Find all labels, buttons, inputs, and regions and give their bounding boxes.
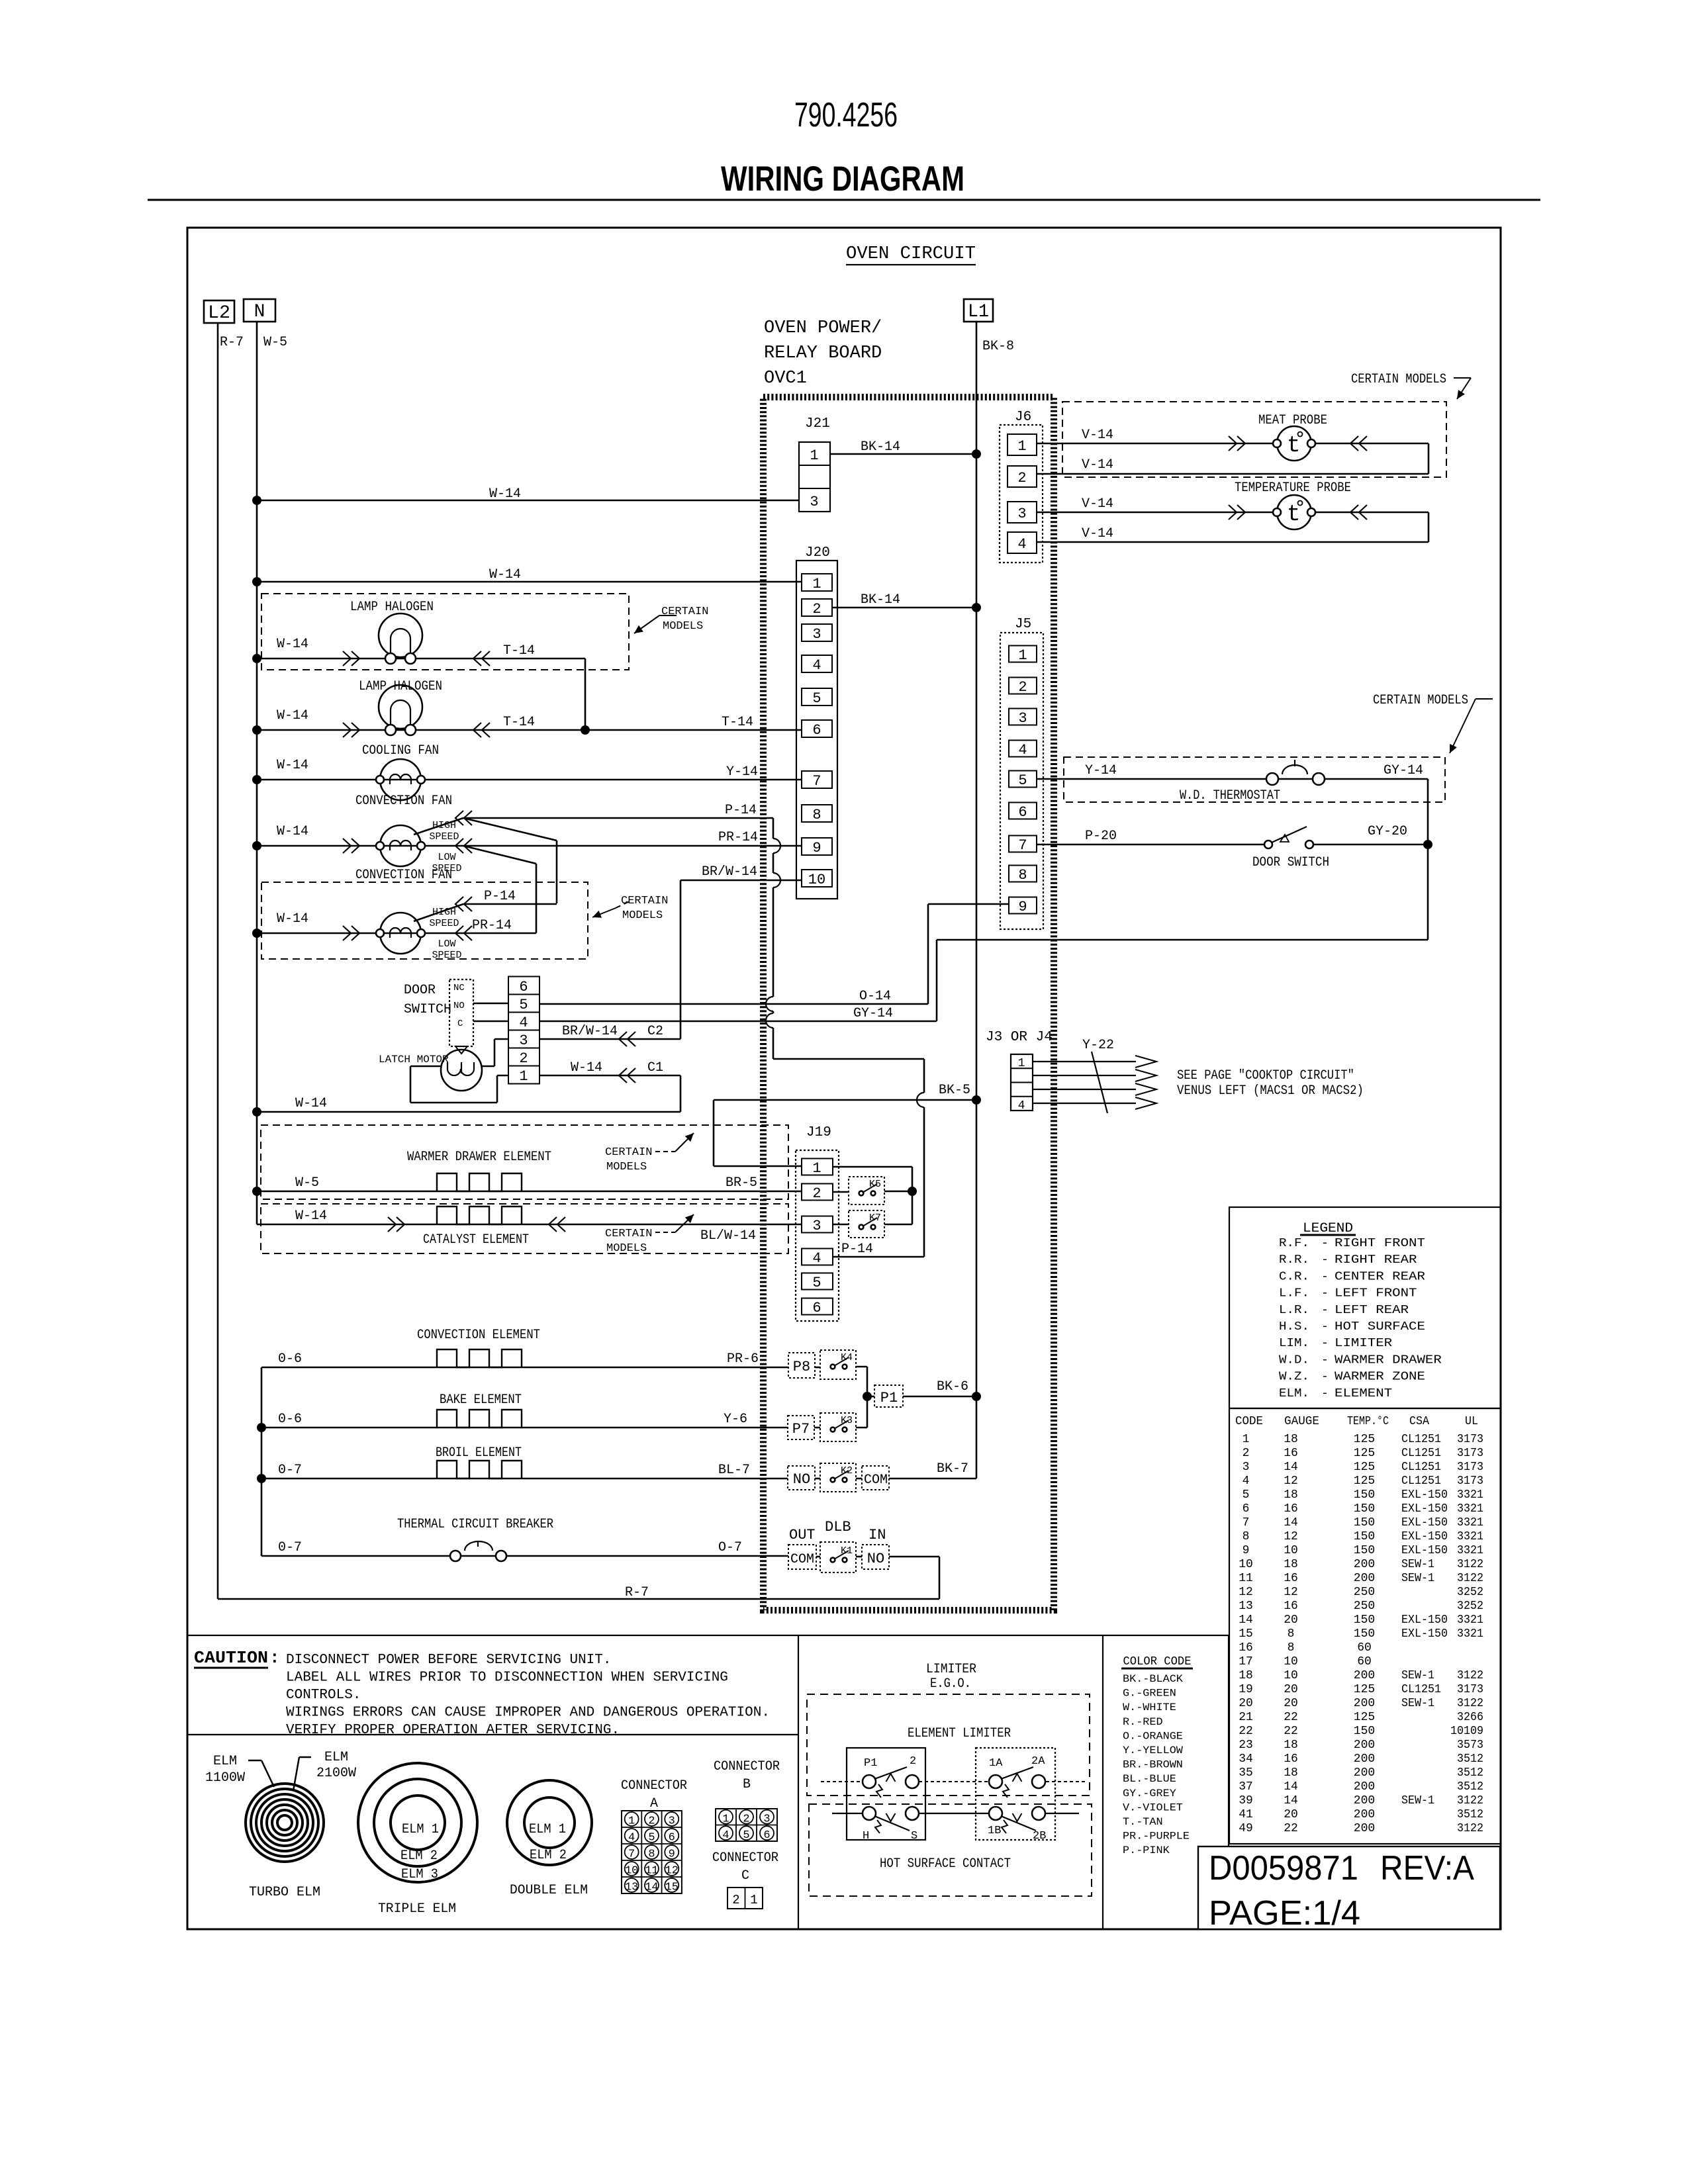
divider limiter/colorcode [1102, 1635, 1103, 1929]
meat probe sensor symbol [1277, 426, 1311, 461]
svg-text:P-14: P-14 [841, 1242, 873, 1257]
svg-text:10: 10 [625, 1865, 638, 1878]
connector chevrons lamp1 left [343, 651, 351, 666]
terminal COM broil [862, 1466, 889, 1490]
wire L2 R-7 vertical bus [217, 323, 219, 1599]
terminal P8 [788, 1353, 815, 1378]
svg-text:HOT SURFACE: HOT SURFACE [1335, 1320, 1425, 1334]
terminal L1 [964, 299, 993, 322]
svg-text:3173: 3173 [1457, 1433, 1483, 1446]
svg-text:150: 150 [1354, 1502, 1375, 1516]
svg-text:W-5: W-5 [263, 335, 287, 350]
svg-text:60: 60 [1357, 1641, 1372, 1655]
svg-text:W-5: W-5 [295, 1175, 319, 1191]
svg-text:14: 14 [1284, 1516, 1298, 1529]
hop P-14 vertical over BK-5 [917, 1093, 924, 1107]
svg-text:V.-VIOLET: V.-VIOLET [1123, 1801, 1183, 1813]
wire BR/W-14 C2 from cell 3 [539, 1038, 680, 1040]
svg-text:W.-WHITE: W.-WHITE [1123, 1702, 1176, 1713]
connector chevrons catalyst right [549, 1217, 557, 1232]
svg-text:H.S.: H.S. [1279, 1320, 1309, 1334]
svg-text:200: 200 [1354, 1808, 1375, 1821]
svg-text:-: - [1321, 1387, 1329, 1400]
wire R-7 riser to DLB NO [939, 1557, 941, 1599]
svg-text:0-6: 0-6 [278, 1412, 302, 1427]
svg-text:200: 200 [1354, 1558, 1375, 1571]
wire O-6 bake element row to P7 [261, 1427, 788, 1429]
svg-text:CERTAIN MODELS: CERTAIN MODELS [1351, 372, 1446, 387]
svg-text::: : [269, 1648, 280, 1668]
svg-text:BK-14: BK-14 [861, 592, 900, 608]
svg-text:P7: P7 [792, 1421, 810, 1437]
bottom band top edge [187, 1635, 1229, 1636]
svg-text:HOT SURFACE CONTACT: HOT SURFACE CONTACT [880, 1856, 1011, 1872]
svg-text:16: 16 [1284, 1502, 1298, 1516]
svg-text:C: C [741, 1868, 749, 1884]
junction BK-14 J20-2 on L1 bus [972, 603, 981, 612]
svg-text:8: 8 [1288, 1627, 1295, 1641]
wire J19-2 to K5 [833, 1191, 849, 1193]
svg-text:23: 23 [1239, 1739, 1253, 1752]
svg-text:N: N [254, 302, 265, 322]
svg-text:C: C [457, 1019, 463, 1029]
svg-text:WIRING DIAGRAM: WIRING DIAGRAM [721, 159, 964, 199]
svg-text:BR/W-14: BR/W-14 [562, 1024, 618, 1039]
wire K3 to P1 riser [856, 1427, 867, 1429]
svg-text:1: 1 [519, 1068, 528, 1085]
svg-text:CERTAIN: CERTAIN [661, 606, 708, 618]
svg-text:-: - [1321, 1270, 1329, 1283]
svg-text:150: 150 [1354, 1627, 1375, 1641]
svg-text:4: 4 [812, 657, 821, 674]
svg-text:8: 8 [1288, 1641, 1295, 1655]
svg-text:LEFT FRONT: LEFT FRONT [1335, 1287, 1417, 1300]
caution divider [187, 1734, 798, 1735]
svg-text:BK-14: BK-14 [861, 439, 900, 455]
svg-text:125: 125 [1354, 1433, 1375, 1446]
svg-text:K5: K5 [869, 1179, 881, 1190]
svg-text:GY-14: GY-14 [1383, 763, 1423, 778]
svg-text:9: 9 [1243, 1544, 1250, 1557]
svg-text:10: 10 [1284, 1655, 1298, 1668]
svg-text:3: 3 [1243, 1461, 1250, 1474]
svg-text:K4: K4 [841, 1352, 853, 1363]
svg-text:V-14: V-14 [1082, 457, 1113, 473]
svg-text:J20: J20 [805, 545, 830, 561]
svg-text:1: 1 [628, 1815, 635, 1828]
svg-text:-: - [1321, 1337, 1329, 1350]
svg-text:R.-RED: R.-RED [1123, 1716, 1163, 1728]
svg-text:41: 41 [1239, 1808, 1253, 1821]
svg-text:P.-PINK: P.-PINK [1123, 1844, 1170, 1856]
hop P-14 vertical over BR/W-14 [773, 873, 780, 887]
svg-text:COM: COM [864, 1473, 888, 1488]
svg-text:3173: 3173 [1457, 1447, 1483, 1460]
colorcode right edge [1228, 1635, 1229, 1929]
svg-text:LATCH MOTOR: LATCH MOTOR [379, 1054, 449, 1066]
wire R-7 bottom run [218, 1598, 939, 1600]
wire W-14 C1 riser to white bus [680, 1075, 682, 1112]
svg-text:14: 14 [645, 1882, 658, 1894]
relay K7 [849, 1210, 884, 1238]
lamp 1 symbol [379, 614, 422, 657]
svg-text:K7: K7 [869, 1212, 881, 1224]
svg-text:PR-14: PR-14 [718, 830, 758, 845]
svg-text:125: 125 [1354, 1711, 1375, 1724]
svg-text:SWITCH: SWITCH [404, 1002, 451, 1017]
svg-text:2: 2 [648, 1815, 655, 1828]
svg-text:3: 3 [519, 1032, 528, 1049]
wire conv fan2 high speed diagonal [414, 904, 463, 921]
svg-text:5: 5 [1018, 772, 1027, 789]
svg-text:150: 150 [1354, 1544, 1375, 1557]
svg-text:3321: 3321 [1457, 1544, 1483, 1557]
svg-text:11: 11 [645, 1865, 658, 1878]
svg-text:10109: 10109 [1450, 1725, 1483, 1738]
svg-text:18: 18 [1284, 1766, 1298, 1780]
svg-text:4: 4 [812, 1250, 821, 1267]
thermal breaker symbol [450, 1551, 461, 1561]
double elm rings [507, 1780, 592, 1865]
svg-text:6: 6 [669, 1832, 675, 1844]
svg-text:20: 20 [1284, 1697, 1298, 1710]
connector chevrons conv fan1 low speed [455, 839, 463, 853]
wire GY-14 door cell 4 run [539, 1021, 937, 1023]
svg-text:EXL-150: EXL-150 [1401, 1502, 1448, 1516]
title block [1198, 1846, 1500, 1929]
svg-text:2B: 2B [1033, 1830, 1046, 1843]
svg-text:16: 16 [1284, 1447, 1298, 1460]
svg-text:K3: K3 [841, 1415, 853, 1426]
svg-text:10: 10 [1284, 1544, 1298, 1557]
svg-text:LAMP HALOGEN: LAMP HALOGEN [359, 679, 442, 694]
terminal L2 [204, 300, 234, 323]
wire O orange bus vertical [261, 1367, 263, 1556]
relay K1 [820, 1542, 856, 1572]
wire V-14 temp probe return to J6-4 [1428, 512, 1430, 542]
connector A grid [622, 1811, 682, 1893]
svg-text:J5: J5 [1015, 617, 1031, 632]
wire NO to K2 [815, 1478, 820, 1480]
svg-text:20: 20 [1284, 1808, 1298, 1821]
connector chevrons temp probe left [1229, 505, 1237, 520]
svg-text:J6: J6 [1015, 410, 1031, 425]
svg-text:2: 2 [1243, 1447, 1250, 1460]
svg-text:CSA: CSA [1409, 1415, 1429, 1428]
svg-text:200: 200 [1354, 1572, 1375, 1585]
svg-text:3321: 3321 [1457, 1627, 1483, 1641]
terminal N [244, 299, 275, 322]
svg-text:37: 37 [1239, 1780, 1253, 1794]
svg-text:10: 10 [1284, 1669, 1298, 1682]
svg-text:22: 22 [1239, 1725, 1253, 1738]
svg-text:3266: 3266 [1457, 1711, 1483, 1724]
svg-text:EXL-150: EXL-150 [1401, 1614, 1448, 1627]
wire J19-1 to relay common [833, 1166, 912, 1168]
wire Y-14 J5-5 to wd thermostat [1037, 778, 1428, 780]
connector chevrons lamp2 right [473, 723, 481, 737]
svg-text:2: 2 [1018, 679, 1027, 696]
svg-text:GAUGE: GAUGE [1284, 1415, 1319, 1428]
svg-text:3321: 3321 [1457, 1488, 1483, 1502]
svg-text:VERIFY PROPER OPERATION AFTER: VERIFY PROPER OPERATION AFTER SERVICING. [286, 1723, 620, 1738]
svg-text:-: - [1321, 1253, 1329, 1267]
svg-text:3573: 3573 [1457, 1739, 1483, 1752]
svg-text:2100W: 2100W [316, 1766, 356, 1781]
svg-text:Y-22: Y-22 [1082, 1038, 1114, 1053]
svg-text:C1: C1 [647, 1060, 663, 1075]
svg-text:PR-14: PR-14 [472, 918, 512, 933]
svg-text:BK-5: BK-5 [939, 1083, 970, 1098]
svg-text:R-7: R-7 [220, 335, 244, 350]
svg-text:BL.-BLUE: BL.-BLUE [1123, 1773, 1176, 1785]
svg-text:R.R.: R.R. [1279, 1253, 1309, 1267]
svg-text:WIRINGS ERRORS CAN CAUSE IMPRO: WIRINGS ERRORS CAN CAUSE IMPROPER AND DA… [286, 1706, 770, 1721]
wire BK-14 J21-1 to L1 bus [830, 453, 976, 455]
svg-text:NO: NO [867, 1551, 884, 1567]
svg-text:20: 20 [1284, 1614, 1298, 1627]
svg-text:1: 1 [1018, 1057, 1025, 1070]
svg-text:2: 2 [743, 1813, 749, 1825]
wire conv fan1 high speed diagonal [414, 818, 463, 835]
svg-text:200: 200 [1354, 1697, 1375, 1710]
svg-text:BAKE ELEMENT: BAKE ELEMENT [440, 1392, 522, 1408]
svg-text:CERTAIN: CERTAIN [605, 1146, 652, 1159]
svg-text:9: 9 [1018, 899, 1027, 915]
svg-text:GY-14: GY-14 [853, 1006, 893, 1021]
svg-text:W-14: W-14 [277, 637, 308, 652]
wd thermostat symbol [1266, 773, 1278, 785]
svg-text:WARMER DRAWER: WARMER DRAWER [1335, 1353, 1442, 1367]
wire P8 to K4 [815, 1367, 820, 1369]
svg-text:3252: 3252 [1457, 1600, 1483, 1613]
svg-text:3: 3 [810, 494, 818, 510]
svg-text:200: 200 [1354, 1669, 1375, 1682]
svg-text:9: 9 [669, 1848, 675, 1861]
svg-text:CL1251: CL1251 [1401, 1461, 1441, 1474]
svg-text:SEW-1: SEW-1 [1401, 1558, 1434, 1571]
svg-text:BK.-BLACK: BK.-BLACK [1123, 1673, 1183, 1685]
svg-text:15: 15 [1239, 1627, 1253, 1641]
svg-text:200: 200 [1354, 1752, 1375, 1766]
bake element bumps [437, 1410, 522, 1428]
svg-text:3: 3 [1018, 710, 1027, 727]
svg-text:3122: 3122 [1457, 1794, 1483, 1807]
svg-text:CL1251: CL1251 [1401, 1475, 1441, 1488]
svg-text:P-14: P-14 [484, 889, 516, 904]
svg-text:J19: J19 [806, 1125, 831, 1140]
svg-text:3321: 3321 [1457, 1502, 1483, 1516]
svg-text:-: - [1321, 1320, 1329, 1334]
svg-text:49: 49 [1239, 1822, 1253, 1835]
svg-text:18: 18 [1239, 1669, 1253, 1682]
wire O-7 thermal breaker row to DLB COM [261, 1555, 788, 1557]
wire V-14 meat probe return to J6-2 [1428, 443, 1430, 474]
svg-text:CERTAIN: CERTAIN [605, 1228, 652, 1240]
svg-text:DISCONNECT POWER BEFORE SERVIC: DISCONNECT POWER BEFORE SERVICING UNIT. [286, 1653, 611, 1668]
svg-text:3122: 3122 [1457, 1558, 1483, 1571]
svg-text:Y.-YELLOW: Y.-YELLOW [1123, 1745, 1183, 1756]
svg-text:S: S [911, 1830, 917, 1843]
svg-text:C2: C2 [647, 1024, 663, 1039]
svg-text:6: 6 [812, 1300, 821, 1316]
svg-text:18: 18 [1284, 1739, 1298, 1752]
leader certain models fan2 [592, 908, 616, 917]
svg-text:250: 250 [1354, 1586, 1375, 1599]
svg-text:6: 6 [763, 1829, 770, 1842]
terminal NO broil [788, 1466, 815, 1490]
svg-text:W-14: W-14 [277, 911, 308, 927]
door switch connector cells 6-1 [508, 977, 539, 995]
svg-text:150: 150 [1354, 1530, 1375, 1543]
junction W-14 bottom bus on N bus [252, 1107, 261, 1116]
svg-text:PR.-PURPLE: PR.-PURPLE [1123, 1831, 1190, 1843]
svg-text:LOW: LOW [438, 852, 455, 863]
hop P-14 vertical over O-14 [766, 997, 773, 1011]
relay K2 [820, 1463, 856, 1492]
svg-text:16: 16 [1284, 1572, 1298, 1585]
svg-text:SPEED: SPEED [429, 918, 459, 929]
wire K2 to COM [856, 1478, 862, 1480]
svg-text:OVEN POWER/: OVEN POWER/ [764, 318, 882, 338]
certain models dashed box catalyst element [261, 1204, 788, 1253]
svg-text:150: 150 [1354, 1488, 1375, 1502]
svg-text:THERMAL CIRCUIT BREAKER: THERMAL CIRCUIT BREAKER [397, 1517, 553, 1532]
connector chevrons conv fan2 high speed [455, 897, 463, 911]
wire door switch NO to cell 5 [473, 1003, 508, 1005]
svg-text:8: 8 [1243, 1530, 1250, 1543]
svg-text:5: 5 [1243, 1488, 1250, 1502]
svg-text:150: 150 [1354, 1614, 1375, 1627]
wire W-14 convection fan1 row PR-14 to J20-9 [257, 845, 802, 847]
wire BR/W-14 J20-10 row [680, 880, 802, 882]
svg-text:CAUTION: CAUTION [194, 1648, 268, 1668]
divider elm/limiter [798, 1635, 799, 1929]
connector chevrons lamp1 right [473, 651, 481, 666]
svg-text:O-14: O-14 [859, 989, 891, 1004]
svg-text:3: 3 [763, 1813, 770, 1825]
svg-text:D0059871: D0059871 [1209, 1849, 1358, 1888]
svg-text:4: 4 [628, 1832, 635, 1844]
connector chevrons conv fan1 high speed [455, 811, 463, 825]
wire V-14 J6-1 to meat probe [1037, 443, 1429, 445]
svg-text:3122: 3122 [1457, 1822, 1483, 1835]
junction W-14 on N bus at J20-1 wire [252, 577, 261, 586]
svg-text:T-14: T-14 [503, 643, 535, 659]
svg-text:L2: L2 [208, 303, 230, 324]
svg-text:WARMER DRAWER ELEMENT: WARMER DRAWER ELEMENT [407, 1150, 551, 1165]
svg-text:K1: K1 [841, 1545, 853, 1557]
wire BK-7 COM to L1 bus [889, 1478, 976, 1480]
svg-text:1: 1 [812, 1160, 821, 1177]
svg-text:EXL-150: EXL-150 [1401, 1488, 1448, 1502]
svg-text:V-14: V-14 [1082, 496, 1113, 512]
svg-text:P8: P8 [793, 1359, 810, 1375]
svg-text:3512: 3512 [1457, 1808, 1483, 1821]
svg-text:125: 125 [1354, 1683, 1375, 1696]
svg-text:Y-14: Y-14 [1085, 763, 1117, 778]
svg-text:GY.-GREY: GY.-GREY [1123, 1788, 1176, 1799]
svg-text:CONVECTION ELEMENT: CONVECTION ELEMENT [417, 1328, 540, 1343]
svg-text:ELM: ELM [324, 1750, 348, 1765]
svg-text:3122: 3122 [1457, 1669, 1483, 1682]
connector chevrons conv fan1 left [343, 839, 351, 853]
svg-text:t: t [1287, 433, 1300, 459]
wire BK-6 P1 to L1 bus [903, 1396, 976, 1398]
triple elm rings [358, 1763, 477, 1882]
hot surface H-S switch [832, 1813, 863, 1814]
svg-text:TEMP.°C: TEMP.°C [1347, 1415, 1389, 1428]
certain models dashed box convection fan 2 [261, 882, 588, 959]
svg-text:0-6: 0-6 [278, 1351, 302, 1367]
svg-text:SEW-1: SEW-1 [1401, 1572, 1434, 1585]
svg-text:LIMITER: LIMITER [926, 1662, 976, 1677]
svg-text:0-7: 0-7 [278, 1463, 302, 1478]
terminal P7 [788, 1416, 814, 1439]
svg-text:3173: 3173 [1457, 1475, 1483, 1488]
svg-text:TRIPLE ELM: TRIPLE ELM [378, 1901, 456, 1917]
svg-text:1100W: 1100W [205, 1770, 245, 1786]
svg-text:250: 250 [1354, 1600, 1375, 1613]
svg-text:3: 3 [812, 1218, 821, 1234]
convection fan 1 motor symbol [380, 825, 421, 866]
wire K7 to common [884, 1224, 912, 1226]
wire W-14 bottom bus from N bus [257, 1111, 680, 1113]
svg-text:3: 3 [812, 626, 821, 643]
svg-text:BK-6: BK-6 [937, 1379, 968, 1394]
wire W-5 warmer drawer row to J19-2 [257, 1191, 802, 1193]
wire T-14 lamp1 drop to lamp2 row [585, 659, 586, 730]
svg-text:3173: 3173 [1457, 1683, 1483, 1696]
connector chevrons meat probe left [1229, 436, 1237, 451]
svg-text:8: 8 [812, 807, 821, 823]
svg-text:LIMITER: LIMITER [1335, 1337, 1392, 1350]
svg-text:5: 5 [743, 1829, 749, 1842]
svg-text:150: 150 [1354, 1516, 1375, 1529]
svg-text:3321: 3321 [1457, 1516, 1483, 1529]
svg-text:R.F.: R.F. [1279, 1237, 1309, 1250]
svg-text:3: 3 [669, 1815, 675, 1828]
svg-text:MODELS: MODELS [663, 620, 703, 633]
svg-text:22: 22 [1284, 1711, 1298, 1724]
svg-text:9: 9 [812, 840, 821, 856]
svg-text:2A: 2A [1031, 1755, 1045, 1768]
svg-text:12: 12 [1284, 1586, 1298, 1599]
warmer drawer element bumps [437, 1173, 522, 1191]
wire P-20 J5-7 to door switch [1037, 844, 1264, 846]
svg-text:P-14: P-14 [725, 803, 757, 818]
connector C grid [727, 1888, 763, 1909]
svg-text:P1: P1 [880, 1390, 898, 1406]
svg-text:CATALYST ELEMENT: CATALYST ELEMENT [423, 1232, 529, 1248]
svg-text:7: 7 [812, 773, 821, 790]
svg-text:3122: 3122 [1457, 1572, 1483, 1585]
door switch contact symbol [1264, 841, 1272, 848]
terminal NO DLB [862, 1545, 889, 1569]
hot surface dashed box [809, 1804, 1092, 1896]
limiter block right [976, 1748, 1055, 1840]
svg-text:14: 14 [1239, 1614, 1253, 1627]
wire W-14 C1 from cell 1 [539, 1075, 680, 1077]
svg-text:2: 2 [519, 1050, 528, 1067]
svg-text:4: 4 [1243, 1475, 1250, 1488]
svg-text:CONVECTION FAN: CONVECTION FAN [355, 794, 452, 809]
wire L1 BK-8 vertical bus [976, 322, 978, 1479]
svg-text:200: 200 [1354, 1794, 1375, 1807]
svg-text:W-14: W-14 [277, 824, 308, 839]
svg-text:BL-7: BL-7 [718, 1463, 750, 1478]
leader certain models lamp 1 [634, 615, 659, 633]
